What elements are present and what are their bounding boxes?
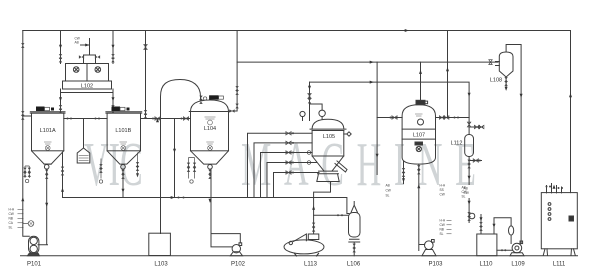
svg-text:L101B: L101B (115, 128, 131, 134)
svg-text:L108: L108 (490, 78, 502, 84)
svg-text:L113: L113 (304, 262, 318, 268)
svg-text:CW: CW (9, 212, 14, 216)
svg-text:L101A: L101A (40, 128, 56, 134)
svg-text:SL: SL (440, 232, 444, 236)
svg-text:P102: P102 (231, 262, 246, 268)
svg-text:L106: L106 (347, 262, 361, 268)
svg-text:SL: SL (386, 194, 390, 198)
svg-text:AB: AB (75, 41, 79, 45)
svg-text:L109: L109 (511, 262, 525, 268)
svg-text:L110: L110 (480, 262, 494, 268)
svg-text:CW: CW (440, 193, 445, 197)
svg-text:P101: P101 (27, 262, 42, 268)
svg-text:NB: NB (9, 217, 13, 221)
svg-text:L111: L111 (553, 262, 566, 268)
svg-text:AB: AB (464, 187, 468, 191)
svg-text:CW: CW (464, 191, 469, 195)
svg-text:SL: SL (462, 195, 466, 199)
svg-text:VIC: VIC (84, 129, 143, 198)
svg-text:AB: AB (386, 184, 390, 188)
svg-text:L107: L107 (413, 133, 425, 139)
svg-text:L102: L102 (81, 83, 93, 89)
svg-text:SS: SS (440, 188, 444, 192)
svg-text:P103: P103 (428, 262, 443, 268)
svg-text:H-H: H-H (9, 208, 15, 212)
svg-text:NB: NB (440, 228, 444, 232)
svg-text:H-H: H-H (440, 219, 446, 223)
svg-text:L103: L103 (154, 262, 168, 268)
svg-text:SL: SL (9, 226, 13, 230)
svg-text:CW: CW (440, 223, 445, 227)
svg-text:L112: L112 (451, 141, 463, 147)
svg-text:L105: L105 (323, 134, 335, 140)
svg-text:CW: CW (386, 189, 391, 193)
svg-text:L104: L104 (204, 126, 216, 132)
svg-text:H-H: H-H (440, 184, 446, 188)
